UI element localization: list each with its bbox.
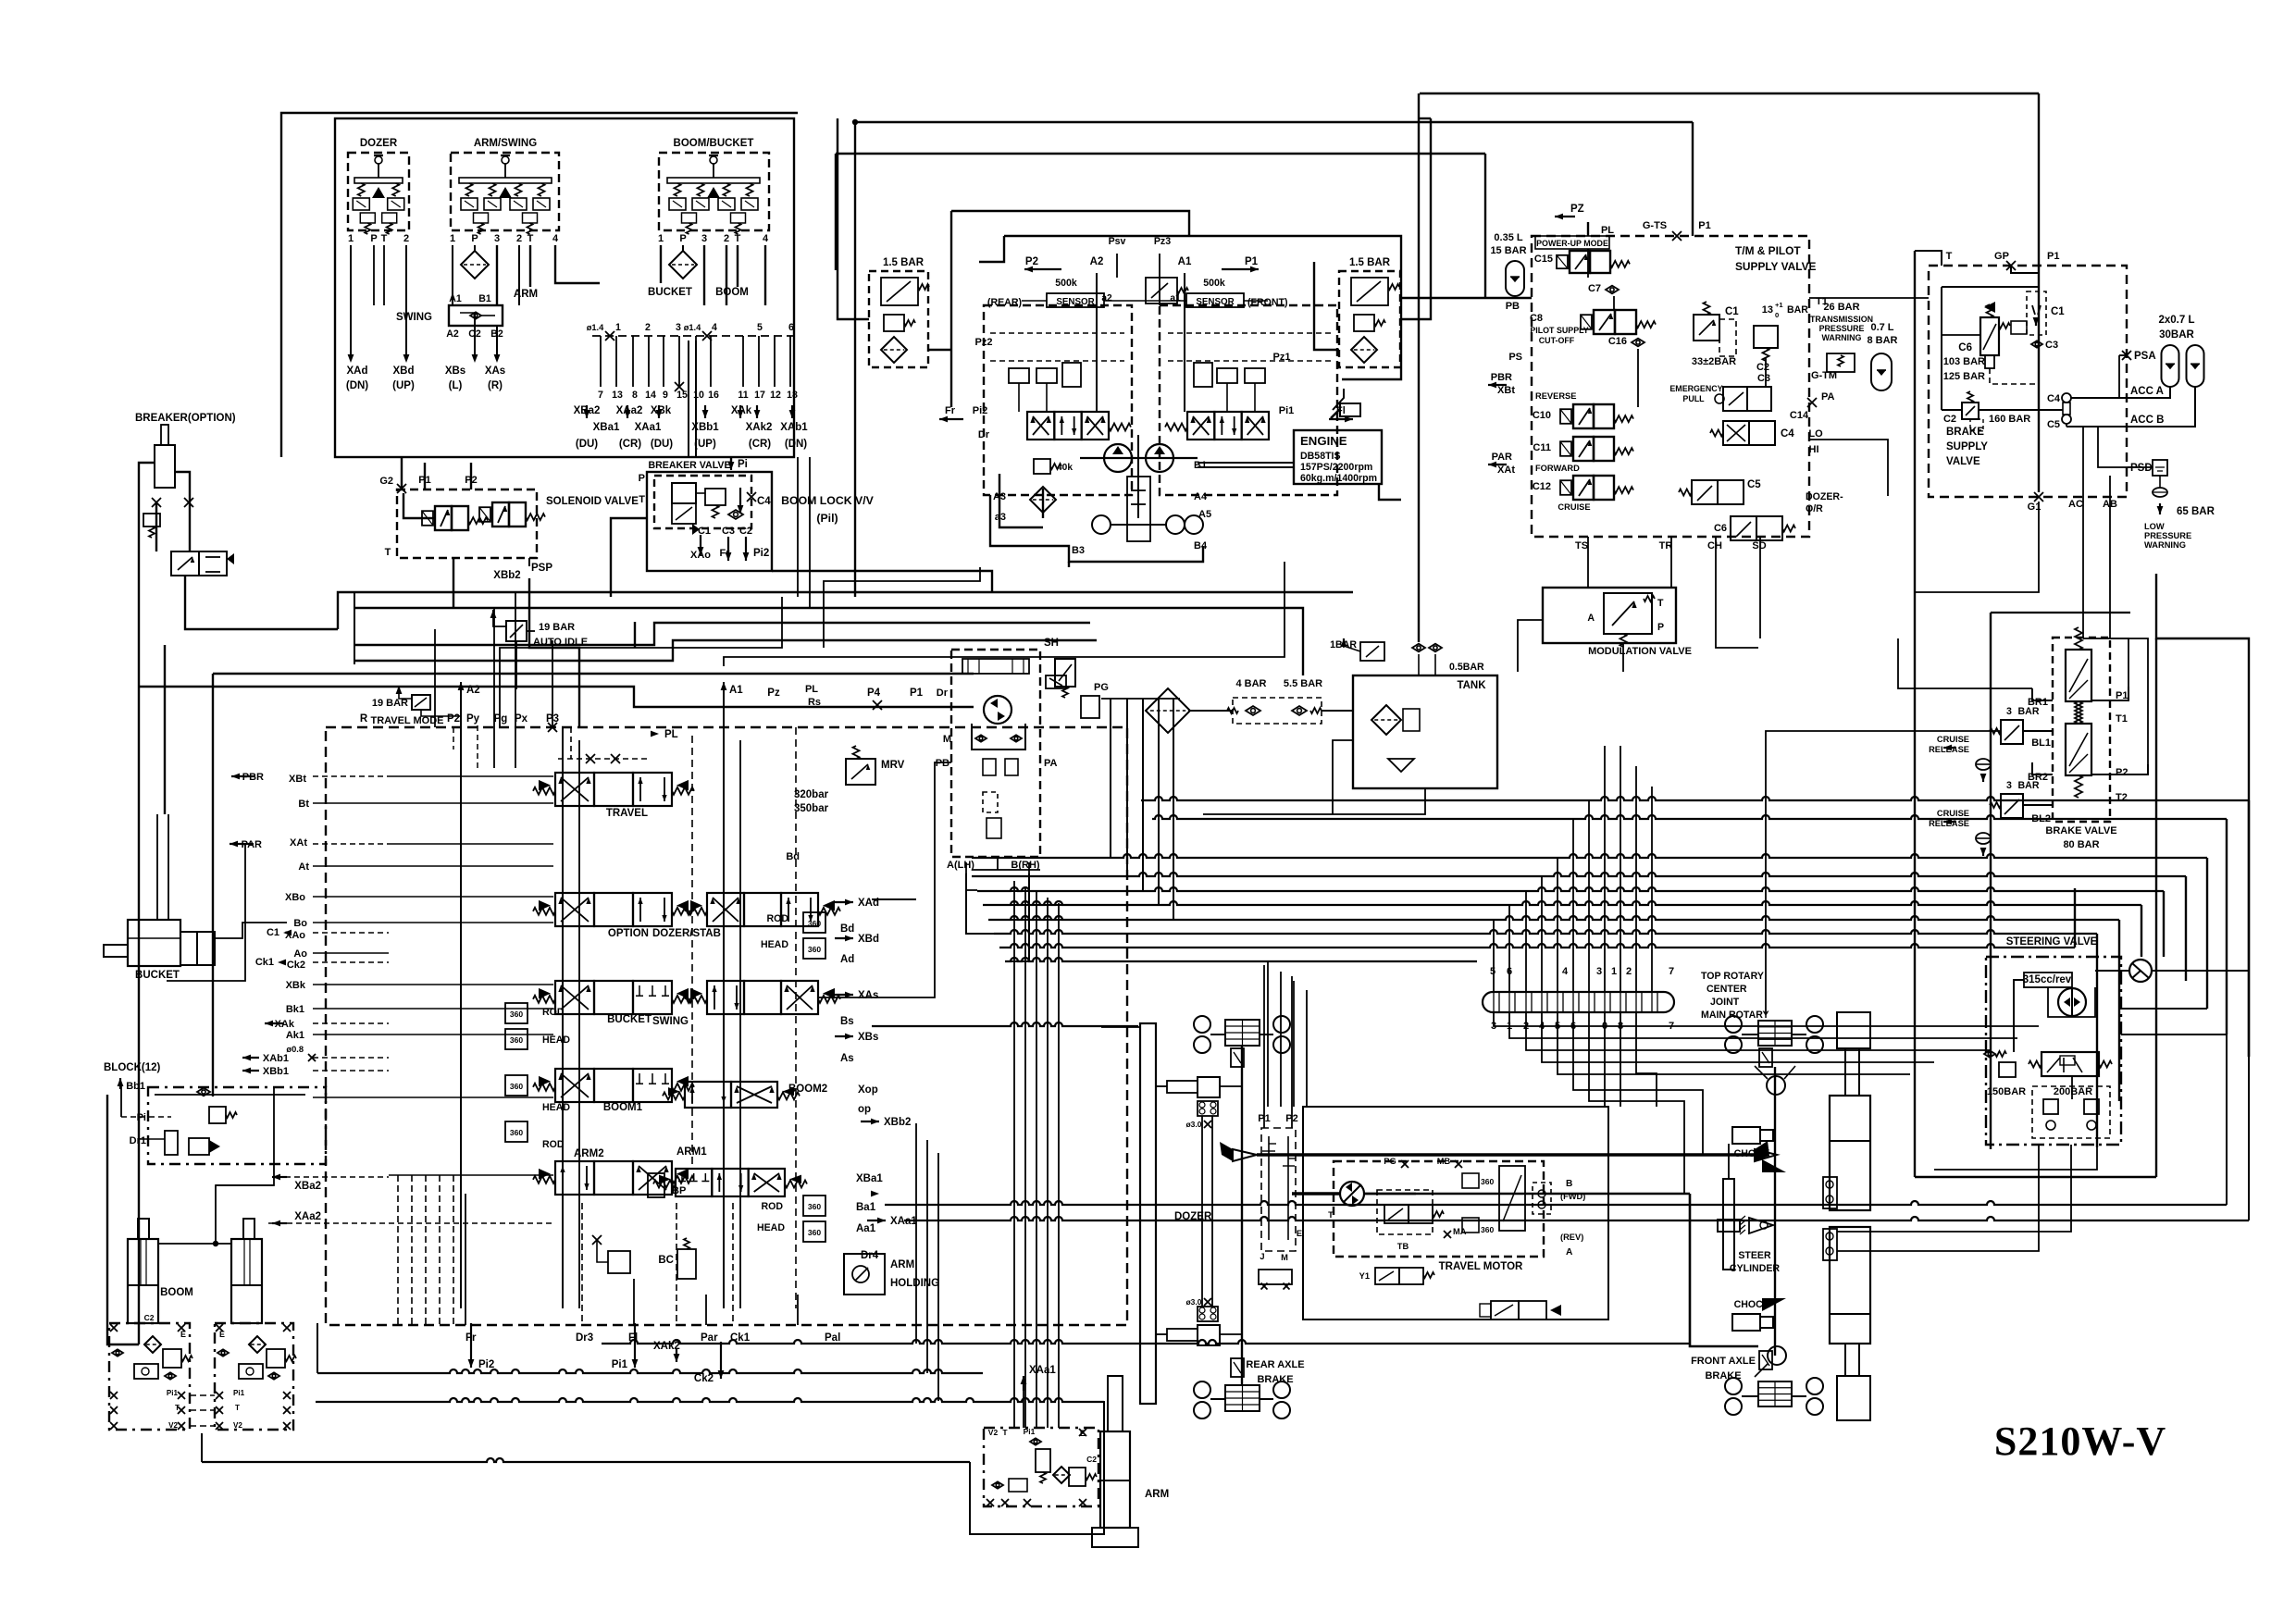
svg-text:26 BAR: 26 BAR [1823,302,1859,313]
bus lines MCV to right [972,854,2207,858]
svg-text:BOOM: BOOM [160,1287,193,1298]
svg-text:C16: C16 [1608,336,1627,347]
Py Pg Px pilot verticals [477,725,478,768]
wires under breaker/solenoid to tank [338,592,1353,629]
wires brake valve [2023,730,2053,732]
svg-text:P2: P2 [1025,256,1038,267]
svg-text:PSA: PSA [2134,351,2156,362]
arrow XAd [348,354,354,363]
svg-text:A(LH): A(LH) [947,860,974,871]
svg-text:C3: C3 [2045,340,2058,351]
ARM2 valve [555,1161,594,1195]
svg-text:1.5 BAR: 1.5 BAR [883,257,925,268]
svg-text:MRV: MRV [881,760,905,771]
svg-text:2: 2 [403,233,409,244]
svg-text:PRESSURE: PRESSURE [1819,324,1865,333]
svg-text:T: T [1002,1428,1008,1437]
svg-text:Bs: Bs [840,1016,854,1027]
svg-text:1: 1 [658,233,664,244]
arrow XBs [472,354,478,363]
A2 A1 arrows [458,682,465,690]
svg-text:BRAKE: BRAKE [1946,427,1984,438]
svg-text:2: 2 [516,233,522,244]
bottom tank connections [1203,788,1425,814]
brake valve spool 2 [2066,724,2091,775]
C3 check [2031,341,2042,347]
svg-text:PAR: PAR [1492,452,1512,463]
svg-text:XAa1: XAa1 [1029,1365,1056,1376]
svg-text:2: 2 [645,322,651,333]
svg-text:a3: a3 [995,512,1006,523]
svg-text:P1: P1 [2047,251,2059,262]
svg-text:T1: T1 [2116,713,2128,725]
svg-text:GP: GP [1994,251,2009,262]
svg-text:T: T [381,233,388,244]
svg-text:ACC B: ACC B [2130,415,2164,426]
svg-text:BUCKET: BUCKET [135,970,180,981]
svg-text:C11: C11 [1533,442,1551,453]
svg-text:O/R: O/R [1806,503,1823,514]
svg-text:0: 0 [1775,311,1779,319]
svg-text:Ba1: Ba1 [856,1202,876,1213]
svg-text:SENSOR: SENSOR [1196,297,1234,307]
svg-text:150BAR: 150BAR [1987,1086,2026,1097]
rear axle brake actuator bottom [1231,1358,1244,1377]
wire Pi drop [730,457,732,463]
left block relief [163,1349,181,1368]
svg-text:Ck2: Ck2 [694,1373,714,1384]
svg-text:C3: C3 [1757,373,1770,384]
svg-text:4 BAR: 4 BAR [1235,678,1266,689]
svg-text:XBk: XBk [286,980,306,991]
svg-text:BAR: BAR [1787,304,1808,316]
travel motor P1 P2 risers [1263,965,1265,1128]
svg-text:360: 360 [808,945,821,954]
wire auto idle down [634,622,636,648]
charge valve C6 [1980,317,1999,355]
svg-text:B1: B1 [478,293,491,304]
PL Pz Rs labels [651,731,659,737]
arm1 head restrictor [803,1221,825,1242]
svg-text:ARM: ARM [514,289,538,300]
svg-text:C7: C7 [1588,283,1601,294]
svg-text:Ao: Ao [293,948,307,960]
svg-text:ENGINE: ENGINE [1300,434,1347,448]
svg-text:18: 18 [787,390,798,401]
svg-text:SUPPLY: SUPPLY [1946,441,1988,452]
svg-text:360: 360 [1481,1177,1494,1186]
wires lower dozer feeds [1101,1026,1140,1028]
wires TM bottom to modulation [1587,537,1589,588]
svg-text:JOINT: JOINT [1710,997,1740,1008]
brake valve lines to axles [1766,731,2001,1014]
svg-text:HEAD: HEAD [542,1102,570,1113]
svg-text:C2: C2 [468,328,481,340]
wire left column exits down [167,845,245,981]
dozer head restrictor [803,938,825,959]
svg-text:XBa1: XBa1 [856,1173,883,1184]
dozer check block bottom [1198,1307,1218,1321]
svg-text:(CR): (CR) [749,439,771,450]
tank assembly [1353,675,1497,788]
wires TM right to brake supply [1809,297,1929,299]
BR1 BR2 lines to left [2032,688,2053,700]
wire right edge vertical [2156,574,2249,1057]
svg-text:P: P [1657,622,1664,633]
pilot drops from band to MCV top [552,640,553,727]
bus staircase into travel motor left [1267,961,1269,1107]
wire PSD line [2128,466,2138,468]
svg-text:Dr: Dr [937,688,949,699]
svg-text:PULL: PULL [1682,394,1705,403]
arm1 rod restrictor [803,1196,825,1216]
swing motor [984,696,1011,724]
arrow XBd [403,354,410,363]
svg-text:320bar: 320bar [794,789,829,800]
wire XAa1 long right [904,1217,2249,1220]
main pump rear [1104,444,1132,472]
svg-text:REVERSE: REVERSE [1535,391,1576,401]
svg-text:a1: a1 [1170,293,1181,304]
svg-text:XBt: XBt [1497,385,1515,396]
svg-text:FORWARD: FORWARD [1535,464,1580,473]
rotary joint below verticals [1494,1012,2039,1026]
boom block internal wires [155,1094,305,1096]
label PZ arrow [1555,214,1563,220]
svg-text:BOOM LOCK V/V: BOOM LOCK V/V [781,494,875,507]
wire Ba1 right [885,1201,2227,1205]
MCV risers to bottom ports [397,1175,399,1325]
svg-text:BLOCK(12): BLOCK(12) [104,1062,161,1073]
svg-text:ø1.4: ø1.4 [587,323,604,332]
svg-text:A1: A1 [729,685,743,696]
travel motor hydro motor [1340,1182,1364,1206]
svg-text:T: T [527,233,534,244]
svg-text:E: E [219,1330,225,1339]
svg-text:Bk1: Bk1 [286,1004,304,1015]
svg-text:16: 16 [708,390,719,401]
boom safety block dashed box [148,1087,326,1164]
svg-text:Par: Par [701,1332,718,1344]
svg-text:A: A [1587,613,1595,624]
boom cylinder left [138,1219,149,1239]
engine box [1294,430,1382,484]
labels Pi1 Fl front [1345,416,1353,423]
svg-text:CYLINDER: CYLINDER [1730,1263,1780,1274]
svg-text:FRONT AXLE: FRONT AXLE [1691,1356,1756,1367]
wire solenoid to MCV [453,558,454,609]
svg-text:PRESSURE: PRESSURE [2144,531,2191,540]
svg-text:XBa1: XBa1 [593,422,620,433]
front pump regulator valve [1187,412,1214,440]
svg-text:PB: PB [936,758,949,769]
svg-text:5.5 BAR: 5.5 BAR [1284,678,1322,689]
filter under BOOM/BUCKET P port [669,251,697,279]
svg-text:(UP): (UP) [694,439,716,450]
brake supply inner rail [1942,286,2039,288]
svg-text:Pz2: Pz2 [975,337,993,348]
svg-text:TB: TB [1397,1242,1409,1251]
propeller shaft thick line [1257,1153,1755,1156]
svg-text:SWING: SWING [396,312,432,323]
svg-text:6: 6 [788,322,794,333]
modulation valve [1543,588,1676,643]
svg-text:T: T [1328,1210,1334,1220]
svg-text:E: E [180,1330,186,1339]
svg-text:C2: C2 [144,1313,155,1322]
svg-text:MB: MB [1437,1157,1451,1166]
svg-text:ø0.8: ø0.8 [286,1045,304,1054]
svg-text:SOLENOID VALVE: SOLENOID VALVE [546,496,639,507]
labels Fr Pi2 rear [939,416,948,423]
svg-text:B: B [1566,1179,1572,1189]
svg-text:C2: C2 [739,526,752,537]
svg-text:P1: P1 [1698,220,1710,231]
svg-text:XAb1: XAb1 [263,1053,289,1064]
MCV to swing pipes [817,762,951,997]
AC AB drop lines [2082,427,2084,638]
svg-text:Px: Px [515,713,528,725]
boom holding poppet valve [165,1131,178,1155]
swing priority block [449,305,503,326]
front axle wheels bottom pairs [1725,1378,1742,1394]
svg-text:0.7 L: 0.7 L [1870,322,1893,333]
svg-text:PSD: PSD [2130,463,2153,474]
svg-text:Dr1: Dr1 [130,1135,146,1146]
svg-text:13: 13 [1762,304,1773,316]
arrow XAs [494,354,501,363]
svg-text:Pz: Pz [767,688,780,699]
chock top [1732,1127,1760,1144]
dozer pipes vertical [1201,1116,1203,1307]
swing to bus [966,862,977,890]
dozer cylinder top [1198,1077,1220,1097]
svg-text:XBb2: XBb2 [884,1117,911,1128]
svg-text:A: A [1566,1247,1573,1258]
svg-text:S210W-V: S210W-V [1994,1419,2166,1464]
svg-text:HOLDING: HOLDING [890,1278,939,1289]
svg-text:TOP ROTARY: TOP ROTARY [1701,971,1764,982]
travel motor output shaft thick [1292,1192,1340,1195]
svg-text:Bo: Bo [293,918,307,929]
arm holding block [984,1428,1098,1506]
remote control valve BOOM/BUCKET [659,153,769,230]
svg-text:Dr4: Dr4 [861,1250,879,1261]
svg-text:SWING: SWING [652,1016,689,1027]
svg-text:XBo: XBo [285,892,305,903]
main pump front [1146,444,1173,472]
left vertical feeders x470 [434,629,436,727]
svg-text:BREAKER VALVE: BREAKER VALVE [648,460,730,471]
svg-text:(L): (L) [449,380,463,391]
svg-text:ARM2: ARM2 [574,1148,604,1159]
bus left risers lower from swing block [966,873,994,934]
MCV dashed pilot crossings top [570,727,572,759]
sensor link lines [1022,300,1047,302]
svg-text:T2: T2 [2116,792,2128,803]
svg-text:19 BAR: 19 BAR [372,698,408,709]
svg-text:XAt: XAt [1497,465,1515,476]
wire boom blocks bottom runs [190,1394,215,1396]
svg-text:CENTER: CENTER [1706,984,1747,995]
svg-text:7: 7 [1669,966,1674,977]
svg-text:5: 5 [1490,966,1496,977]
Pi2 Pi1 Ck2 arrows [468,1359,475,1368]
svg-text:BRAKE VALVE: BRAKE VALVE [2045,825,2116,836]
svg-text:Y1: Y1 [1359,1271,1370,1281]
svg-text:Ck1: Ck1 [255,957,274,968]
front axle kingpin vertical [1774,1067,1776,1356]
P3 dashed vertical [691,736,693,1166]
svg-text:Bt: Bt [298,799,309,810]
inner partition of pilot label boxes [688,341,689,457]
MCV main dashed box [326,727,1127,1325]
svg-text:CRUISE: CRUISE [1558,502,1590,512]
stabilizer bracket boxes [1823,1177,1837,1208]
wires solenoid valve [403,493,435,518]
filter under ARM/SWING P port [461,251,489,279]
bucket cylinder [128,920,180,966]
SH solenoid [1055,659,1075,687]
PG relief [1081,696,1099,718]
svg-text:CH: CH [1707,540,1722,551]
valve C4 [1723,421,1749,445]
svg-text:13: 13 [612,390,623,401]
front axle wheels top pairs [1725,1016,1742,1033]
svg-text:C5: C5 [2047,419,2060,430]
ACC A line [2071,387,2170,398]
svg-text:V2: V2 [988,1428,999,1437]
svg-text:REAR AXLE: REAR AXLE [1246,1359,1304,1370]
BUCKET valve [555,981,594,1014]
rotary joint capsule [1483,992,1674,1012]
svg-text:WARNING: WARNING [2144,540,2186,550]
travel motor displacement valve [1384,1205,1409,1223]
svg-text:PA: PA [1821,391,1835,403]
svg-text:TRANSMISSION: TRANSMISSION [1810,315,1873,324]
remote control valve ARM/SWING [451,153,559,230]
150BAR relief [1999,1062,2016,1077]
svg-text:R: R [360,713,368,725]
svg-text:B3: B3 [1072,545,1085,556]
svg-text:PZ: PZ [1570,204,1584,215]
pump suction lines [1042,489,1044,518]
BOOM2 valve [685,1082,731,1108]
rear axle wheels top pairs [1194,1016,1210,1033]
svg-text:T: T [385,547,391,558]
svg-text:360: 360 [510,1082,523,1091]
TRAVEL valve [555,773,594,806]
wire MCV inner bottom line [316,1323,318,1373]
svg-text:160 BAR: 160 BAR [1989,414,2030,425]
svg-text:A3: A3 [993,491,1006,502]
wires BOOM/BUCKET drops [660,245,662,283]
svg-text:XAb1: XAb1 [780,422,808,433]
rear axle housing top [1225,1020,1260,1046]
svg-text:B1: B1 [1194,460,1207,471]
svg-text:T/M & PILOT: T/M & PILOT [1735,244,1801,257]
svg-text:1: 1 [348,233,354,244]
center vertical P lines [562,727,564,1308]
svg-text:P2: P2 [447,713,460,725]
svg-text:4: 4 [552,233,559,244]
svg-text:C1: C1 [1725,306,1739,317]
svg-text:Ck2: Ck2 [287,960,305,971]
swing motor block dashed box [951,650,1040,857]
svg-text:33±2BAR: 33±2BAR [1692,356,1736,367]
svg-text:(REV): (REV) [1560,1233,1583,1242]
ARM1 valve [676,1169,712,1196]
svg-text:Pi: Pi [137,1112,146,1123]
boom cylinder right [243,1219,254,1239]
svg-text:PG: PG [1384,1157,1396,1166]
breaker valve check [728,510,743,519]
thick drive shaft second [1365,1193,1690,1196]
wire top third [836,153,1485,155]
svg-text:ROD: ROD [761,1201,783,1212]
svg-text:TANK: TANK [1457,680,1486,691]
A2 A1 drop verticals [1096,273,1098,412]
solenoid valve 1 [435,506,452,530]
svg-text:TRAVEL: TRAVEL [606,808,648,819]
svg-text:ARM1: ARM1 [676,1146,707,1158]
svg-text:Ck1: Ck1 [730,1332,751,1344]
svg-text:(R): (R) [488,380,503,391]
360 restrictor boom rod [505,1121,527,1142]
svg-text:360: 360 [510,1128,523,1137]
svg-text:360: 360 [808,919,821,928]
MCV internal pilot dashed rails [389,775,553,777]
svg-text:A1: A1 [1178,256,1192,267]
svg-text:C1: C1 [2051,306,2065,317]
svg-text:ø3.0: ø3.0 [1185,1297,1201,1307]
svg-text:P: P [471,233,478,244]
svg-text:C4: C4 [1781,428,1794,440]
svg-text:CHOCK: CHOCK [1734,1148,1770,1159]
svg-text:BUCKET: BUCKET [648,287,692,298]
svg-text:MA: MA [1453,1227,1467,1236]
svg-text:C3: C3 [722,526,735,537]
svg-text:Dr: Dr [978,429,990,440]
svg-text:3: 3 [494,233,500,244]
rear axle kingpin line [1241,1046,1243,1385]
G1 port [2034,492,2043,502]
propeller shaft wedge rear [1233,1149,1257,1161]
svg-text:Dr3: Dr3 [576,1332,593,1344]
rotary joint internal ticks [1493,992,1495,1012]
svg-text:XAa2: XAa2 [616,405,643,416]
svg-text:60kg.m/1400rpm: 60kg.m/1400rpm [1300,473,1377,484]
svg-text:E: E [1297,1229,1302,1238]
svg-text:30BAR: 30BAR [2159,329,2194,341]
svg-text:XBd: XBd [858,934,879,945]
svg-text:ACC A: ACC A [2130,386,2164,397]
svg-text:Xop: Xop [858,1084,878,1096]
steering wheel [2129,960,2152,982]
wire top right long [1420,93,2039,94]
svg-text:BRAKE: BRAKE [1257,1374,1293,1385]
svg-text:C12: C12 [1533,481,1551,492]
svg-text:A1: A1 [449,293,462,304]
svg-text:BC: BC [658,1255,674,1266]
svg-text:Pi1: Pi1 [167,1389,179,1397]
svg-text:ARM: ARM [1145,1489,1169,1500]
bus right staircase links [2153,970,2249,972]
svg-text:T: T [735,233,741,244]
40k relief [1034,459,1050,474]
svg-text:1.5 BAR: 1.5 BAR [1349,257,1391,268]
svg-text:Py: Py [466,713,480,725]
